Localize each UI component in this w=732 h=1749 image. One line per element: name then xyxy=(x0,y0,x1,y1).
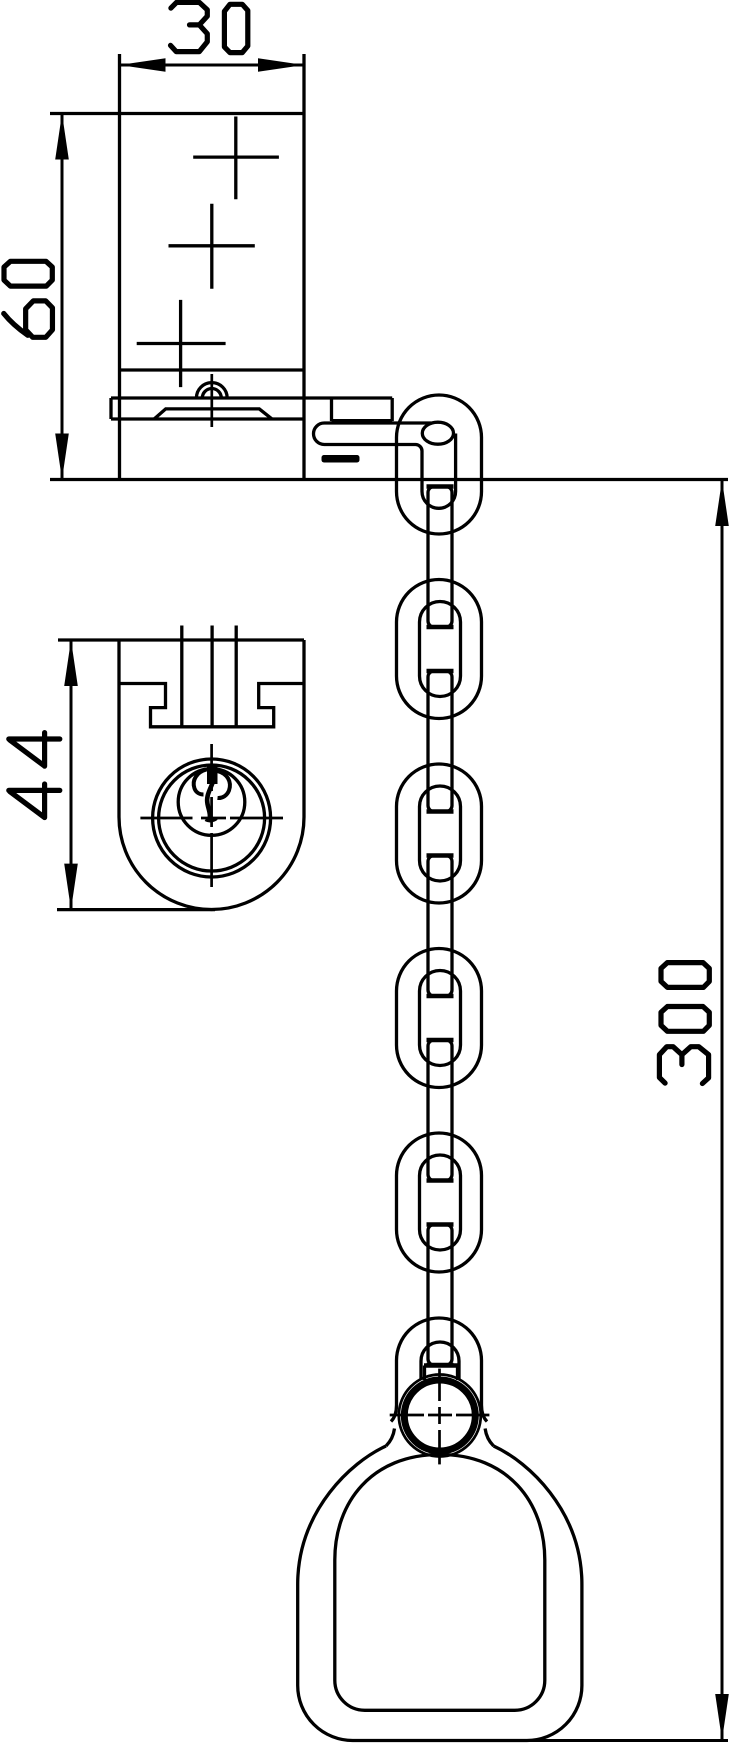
chain link 3 outer xyxy=(397,764,482,903)
dimension line 30 xyxy=(120,64,305,67)
dim line 44 xyxy=(70,640,73,910)
chain link 6 outer top arc xyxy=(391,1318,487,1422)
chain link 6 hole top arc xyxy=(421,1342,459,1379)
screw cross 1 xyxy=(234,117,237,200)
text 44 : digit 4 lower xyxy=(9,784,60,818)
knuckle right end xyxy=(391,398,394,421)
extension+body right side line xyxy=(302,54,305,480)
narrow link 1 xyxy=(428,487,452,628)
arrow right of dim 30 xyxy=(258,58,304,72)
arrow up of dim 60 xyxy=(55,114,69,160)
text 300 : digit 0 (middle) xyxy=(661,1007,709,1032)
chain link 5 hole xyxy=(420,1155,461,1250)
chain link 2 outer xyxy=(397,580,482,719)
arrow down of dim 44 xyxy=(64,864,78,910)
cylinder second circle xyxy=(159,765,265,871)
connector ring thin outer circle xyxy=(399,1375,481,1457)
chain link 1 eye curl xyxy=(422,422,453,444)
arrow up of dim 300 xyxy=(715,480,729,526)
dimension line 60 xyxy=(61,114,64,480)
slot insert line 2 xyxy=(210,626,213,727)
chain link 2 hole xyxy=(420,602,461,697)
D-ring left shoulder fillet xyxy=(386,1429,395,1447)
slot insert line 3 xyxy=(235,626,238,727)
text 30 : digit 0 xyxy=(224,4,247,52)
dim line 300 xyxy=(721,480,724,1740)
knuckle bottom edge xyxy=(332,419,393,422)
D-ring outer outline xyxy=(298,1446,582,1741)
connector vertical centerline xyxy=(438,1369,441,1465)
D-ring right shoulder fillet xyxy=(485,1429,494,1447)
front body outline xyxy=(119,640,304,910)
text 300 : digit 3 xyxy=(659,1047,708,1084)
front bottom extension line of dim 44 xyxy=(57,908,215,911)
narrow link 5 xyxy=(428,1225,452,1366)
text 30 : digit 3 xyxy=(171,2,208,51)
plate left end xyxy=(109,398,112,419)
hinge bar (side view) with eye fillet into link hole xyxy=(314,423,456,508)
narrow link 4 xyxy=(428,1040,452,1181)
narrow link 3 xyxy=(428,856,452,997)
chain link 3 hole xyxy=(420,786,461,881)
extension line at D-ring bottom xyxy=(500,1739,728,1742)
D-ring inner dome xyxy=(335,1455,545,1711)
countersink trapezoid xyxy=(154,409,271,419)
text 60 : digit 0 xyxy=(4,261,52,286)
keyhole black bit xyxy=(207,765,218,784)
keyhole stem xyxy=(207,783,212,818)
arrow up of dim 44 xyxy=(64,640,78,686)
text 44 : digit 4 upper xyxy=(9,733,60,767)
front top edge / extension of dim 44 xyxy=(58,638,304,641)
cylinder vertical centerline xyxy=(210,744,213,887)
text 300 : digit 0 (top) xyxy=(661,963,709,988)
last link cap sides xyxy=(423,1366,426,1381)
connector ring thick circle xyxy=(404,1380,475,1451)
rivet boss outer arc xyxy=(196,383,227,398)
T-slot profile xyxy=(121,684,304,727)
narrow link 2 xyxy=(428,671,452,812)
cylinder horizontal centerline xyxy=(140,817,283,820)
screw cross 3 xyxy=(179,300,182,387)
chain link 1 outer xyxy=(397,395,482,534)
extension+body left side line xyxy=(118,54,121,480)
inner edge line of bracket xyxy=(120,368,305,371)
cylinder plug circle xyxy=(178,769,245,836)
plate top edge xyxy=(111,396,392,399)
last link cap thick line xyxy=(424,1363,458,1368)
chain link 4 outer xyxy=(397,949,482,1088)
chain link 5 outer xyxy=(397,1133,482,1272)
top edge of bracket body / extension of dim 60 xyxy=(50,112,304,115)
rivet boss inner arc xyxy=(202,389,221,399)
text 60 : digit 6 xyxy=(4,301,53,337)
arrow down of dim 300 xyxy=(715,1694,729,1740)
plate bottom edge xyxy=(111,417,306,420)
cylinder outer circle xyxy=(153,759,271,877)
dark edge tick under bar xyxy=(322,455,360,463)
arrow left of dim 30 xyxy=(120,58,166,72)
keyhole left wing xyxy=(194,770,207,795)
screw cross 2 xyxy=(210,204,213,289)
rivet centerline xyxy=(210,374,213,427)
keyhole foot xyxy=(206,819,217,821)
arrow down of dim 60 xyxy=(55,434,69,480)
keyhole right wing xyxy=(218,771,230,798)
plate divider xyxy=(330,398,333,421)
chain link 4 hole xyxy=(420,971,461,1066)
connector horizontal centerline xyxy=(390,1414,490,1417)
slot insert line 1 xyxy=(180,626,183,727)
long extension line (60 bottom / 300 top) xyxy=(50,478,728,481)
